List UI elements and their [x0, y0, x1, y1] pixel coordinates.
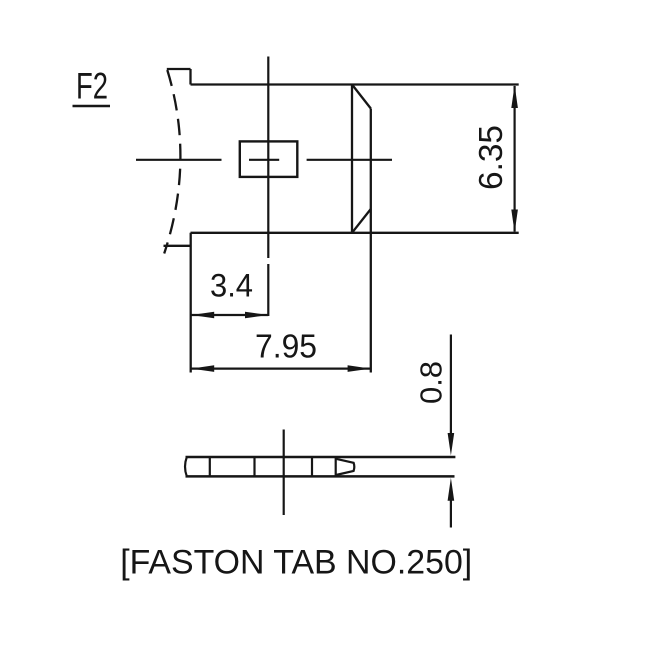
top view: vertical centerline lower segment: [267, 264, 269, 316]
top view: fold vertical line: [351, 85, 353, 233]
top view: bevel right vertical + 7.95 right extension line: [370, 109, 372, 373]
top view: bottom edge with 6.35 extension line: [191, 232, 519, 234]
top view: bottom notch vertical + 3.4/7.95 left extension line: [190, 233, 192, 373]
dimension 0.8: lower leader shaft: [450, 500, 452, 528]
top view: horizontal centerline segment 3: [307, 159, 392, 161]
side view: bend tick 4: [335, 457, 337, 476]
side view: bend tick 3: [311, 457, 313, 476]
side view: bend tick 2: [253, 457, 255, 476]
dimension 7.95: right arrowhead: [348, 365, 371, 372]
top view: horizontal centerline segment 1: [136, 159, 222, 161]
dimension 3.4: right arrowhead: [245, 312, 268, 319]
top view: top notch edge: [167, 68, 191, 70]
top view: horizontal centerline segment 2: [249, 159, 279, 161]
top view: top edge with 6.35 extension line: [191, 83, 519, 85]
dimension 6.35: lower arrowhead: [511, 210, 518, 233]
dimension 6.35: upper arrowhead: [511, 85, 518, 108]
svg-text:7.95: 7.95: [255, 328, 317, 365]
dimension 3.4: dimension line: [191, 314, 268, 316]
dimension 0.8: upper arrowhead (points down): [448, 433, 455, 456]
top view: bottom notch horizontal: [164, 245, 191, 247]
top view: vertical centerline upper segment: [267, 57, 269, 259]
top view: dashed break arc (left): [164, 70, 180, 254]
label F2 underline: [73, 105, 111, 107]
side view: bend tick 1: [209, 457, 211, 476]
dimension 7.95: dimension line: [191, 368, 371, 370]
side view: bottom surface line with extension: [186, 475, 455, 478]
dimension 0.8: upper leader shaft: [450, 335, 452, 435]
top view: bottom bevel diagonal: [352, 209, 371, 233]
top view: top bevel diagonal: [352, 85, 371, 109]
dimension 3.4: left arrowhead: [191, 312, 214, 319]
top view: top notch right vertical: [189, 69, 191, 85]
side view: left end cap (curved): [185, 457, 187, 476]
svg-text:F2: F2: [76, 66, 108, 107]
dimension 0.8: lower arrowhead (points up): [448, 478, 455, 501]
top view: hole rectangle: [240, 141, 297, 177]
side view: top surface line with extension: [186, 456, 456, 459]
svg-text:0.8: 0.8: [414, 361, 449, 404]
svg-text:[FASTON TAB NO.250]: [FASTON TAB NO.250]: [120, 544, 472, 582]
dimension 6.35: dimension line: [513, 86, 515, 232]
svg-text:3.4: 3.4: [210, 268, 253, 304]
side view: vertical centerline: [283, 430, 285, 516]
svg-text:6.35: 6.35: [472, 125, 509, 190]
side view: chamfered tip wedge: [336, 459, 354, 475]
dimension 7.95: left arrowhead: [191, 365, 214, 372]
